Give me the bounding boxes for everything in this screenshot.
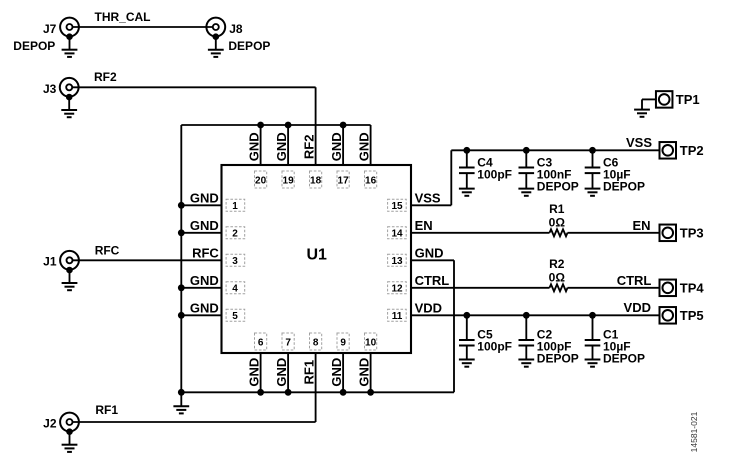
svg-text:GND: GND <box>190 218 219 233</box>
svg-text:16: 16 <box>365 175 377 186</box>
svg-text:9: 9 <box>340 338 346 349</box>
svg-text:14: 14 <box>391 229 403 240</box>
svg-text:DEPOP: DEPOP <box>228 39 270 53</box>
svg-text:3: 3 <box>232 256 238 267</box>
svg-text:GND: GND <box>415 246 444 261</box>
svg-text:RF2: RF2 <box>302 135 317 160</box>
svg-text:8: 8 <box>313 338 319 349</box>
svg-text:GND: GND <box>247 132 262 161</box>
svg-text:1: 1 <box>232 201 238 212</box>
svg-text:20: 20 <box>255 175 267 186</box>
svg-text:TP4: TP4 <box>680 281 705 296</box>
svg-text:5: 5 <box>232 311 238 322</box>
svg-text:J1: J1 <box>43 255 57 269</box>
svg-text:TP2: TP2 <box>680 143 704 158</box>
svg-text:GND: GND <box>357 132 372 161</box>
svg-text:J7: J7 <box>43 22 57 36</box>
svg-text:GND: GND <box>357 358 372 387</box>
svg-text:17: 17 <box>338 175 350 186</box>
svg-text:EN: EN <box>415 218 433 233</box>
svg-text:DEPOP: DEPOP <box>537 352 579 366</box>
svg-text:TP3: TP3 <box>680 226 704 241</box>
svg-text:J2: J2 <box>43 416 57 430</box>
svg-text:GND: GND <box>190 191 219 206</box>
svg-text:7: 7 <box>285 338 291 349</box>
svg-text:J3: J3 <box>43 82 57 96</box>
svg-text:10: 10 <box>365 338 377 349</box>
svg-text:12: 12 <box>391 284 403 295</box>
svg-text:DEPOP: DEPOP <box>603 352 645 366</box>
svg-text:TP1: TP1 <box>676 92 700 107</box>
svg-text:J8: J8 <box>229 22 243 36</box>
svg-text:14581-021: 14581-021 <box>689 411 699 452</box>
svg-text:CTRL: CTRL <box>415 273 450 288</box>
svg-text:RFC: RFC <box>192 246 219 261</box>
svg-text:GND: GND <box>247 358 262 387</box>
svg-text:RF1: RF1 <box>302 360 317 385</box>
svg-text:GND: GND <box>274 132 289 161</box>
svg-text:U1: U1 <box>306 247 327 264</box>
svg-text:0Ω: 0Ω <box>549 270 566 284</box>
svg-text:VSS: VSS <box>415 191 441 206</box>
svg-text:13: 13 <box>391 256 403 267</box>
svg-text:GND: GND <box>274 358 289 387</box>
svg-text:R2: R2 <box>549 257 565 271</box>
svg-text:18: 18 <box>310 175 322 186</box>
svg-text:19: 19 <box>283 175 295 186</box>
svg-text:4: 4 <box>232 284 238 295</box>
svg-text:EN: EN <box>632 218 650 233</box>
svg-text:100pF: 100pF <box>477 340 512 354</box>
svg-text:15: 15 <box>391 201 403 212</box>
svg-text:DEPOP: DEPOP <box>13 39 55 53</box>
svg-text:VDD: VDD <box>624 300 651 315</box>
svg-text:GND: GND <box>329 132 344 161</box>
svg-text:11: 11 <box>392 311 403 322</box>
svg-text:2: 2 <box>232 229 238 240</box>
svg-text:0Ω: 0Ω <box>549 215 566 229</box>
svg-text:R1: R1 <box>549 202 565 216</box>
svg-text:6: 6 <box>258 338 264 349</box>
svg-text:CTRL: CTRL <box>617 273 652 288</box>
svg-text:THR_CAL: THR_CAL <box>95 10 151 24</box>
svg-text:GND: GND <box>190 301 219 316</box>
svg-text:DEPOP: DEPOP <box>537 180 579 194</box>
svg-text:DEPOP: DEPOP <box>603 180 645 194</box>
svg-text:GND: GND <box>190 273 219 288</box>
svg-text:RFC: RFC <box>95 244 120 258</box>
svg-text:VDD: VDD <box>415 301 442 316</box>
svg-text:100pF: 100pF <box>477 168 512 182</box>
svg-text:TP5: TP5 <box>680 308 704 323</box>
svg-text:VSS: VSS <box>626 135 652 150</box>
svg-text:GND: GND <box>329 358 344 387</box>
svg-text:RF1: RF1 <box>95 403 118 417</box>
svg-text:RF2: RF2 <box>94 70 117 84</box>
